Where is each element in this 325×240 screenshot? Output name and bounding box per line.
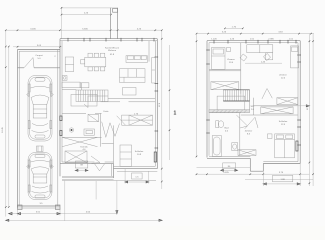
garage inner right wall [57,50,59,207]
storage room bottom wall [18,67,25,69]
window ticks top wall [68,38,154,42]
closet with X [122,115,153,125]
door arc bedroom [91,156,100,163]
dim box A [75,161,87,168]
dim line left inner [8,47,10,208]
dresser X middle room [238,150,256,156]
dining table [85,57,106,67]
dim line top main [6,29,162,31]
bottom dim line 3 [245,179,313,181]
car 1 wheels [28,84,51,129]
extension line left of upper dims [61,7,63,39]
chimney shaft above roof [110,8,112,39]
hob [134,56,140,60]
wall pier dark master [296,141,298,151]
stairs upper flight [76,90,108,102]
sideboard right wall [152,58,156,84]
stairs dark edge [223,89,249,91]
dim box D [273,175,293,181]
tall cabinet left [65,57,73,72]
house left wall [59,39,61,177]
bottom step down [249,158,251,171]
kitchen wall stub [148,41,150,62]
right wall window ticks og [297,55,301,145]
svg-text:Wohnen: Wohnen [108,50,117,52]
kitchen counter [126,56,147,63]
svg-text:Schlafen: Schlafen [279,121,288,123]
desk chair right [263,53,270,60]
car 1 [27,76,54,142]
bedroom top wall segment [102,143,114,145]
hall wall vertical [100,113,102,146]
wall pier dark 1 [60,116,62,121]
coffee table [123,88,137,96]
dim lines right [308,34,310,186]
svg-text:Zimmer: Zimmer [227,58,235,61]
desk chair left [240,54,247,61]
lowboard left [62,82,80,88]
svg-text:3.435: 3.435 [30,28,36,30]
stair wall stub [80,83,82,90]
wardrobe X bedroom1 [211,82,239,90]
dim box C [223,163,236,169]
wc room wall [253,98,255,115]
right dim line of left plan [161,30,163,189]
bedroom wardrobe [120,145,132,166]
dim arrows A [75,169,87,171]
stairs lower outline [71,95,97,107]
garage top wall [18,49,61,51]
living/hall wall a [108,98,155,100]
bottom alcove wall [250,170,263,172]
hall wall upper [62,112,86,114]
bath right wall [239,113,241,156]
door V a [102,122,110,138]
stairs upper flight [223,90,249,101]
svg-text:Kochen/Essen: Kochen/Essen [105,48,120,50]
wall pier dark bedroom [154,152,156,162]
svg-text:Schlafen: Schlafen [135,151,144,153]
dim line top [197,33,315,35]
bottom dim line 1 [197,167,251,169]
stairs walk line [84,96,108,108]
house bottom-left wall [60,163,114,165]
bottom step up [262,164,264,172]
short dim above [225,27,243,29]
door swing right of stairs [262,89,272,99]
dim line upper A [62,7,118,9]
bollard between cars [37,146,44,152]
appliance box [84,129,94,135]
bottom wall right part [263,163,300,165]
house top wall [60,38,157,40]
svg-text:Zimmer: Zimmer [279,74,287,77]
left wall [206,41,208,158]
dim line upper B [62,14,112,16]
svg-text:1: 1 [174,111,177,117]
bottom dim arrows D [263,183,300,185]
storage door leaf [24,58,34,68]
terrace double door V [94,164,104,171]
dim line left [196,34,198,157]
tech door swings X [62,137,98,146]
wall box left [62,76,67,81]
garage left wall [17,50,19,208]
closet door leaf [117,116,126,125]
left wall window ticks og [206,50,210,133]
wardrobe X row2 [261,107,293,114]
bottom dim line garage [9,213,117,215]
stairwell right wall [249,90,251,110]
bedroom1 wall [209,70,241,72]
bath top wall [209,112,241,114]
terrace center extension [95,181,97,200]
door arc kid room [245,117,258,129]
bottom dim arrows [18,213,61,215]
sofa [120,69,146,83]
hatched wall under stairs [209,110,250,113]
svg-text:Diele: Diele [104,111,110,113]
washing machine circle [69,128,73,132]
desk [247,45,273,53]
shower X box [65,151,87,163]
wall pier dark 2 [60,131,62,136]
nightstand master [268,134,273,139]
nightstand [227,48,231,52]
living/hall wall b [101,101,120,103]
door V b [110,123,120,137]
bottom wall left part [207,157,250,159]
chimney box [113,9,118,13]
window ticks top wall [214,40,296,44]
top wall [207,40,300,42]
bottom extension lines [17,208,19,216]
tick upper dims [61,7,112,15]
svg-text:16.45: 16.45 [2,126,4,132]
door arc bath [236,115,247,128]
stairs outline lower [217,96,245,110]
svg-text:2.385: 2.385 [268,39,274,41]
terrace lower edge [62,178,114,180]
bottom dim line outer [6,219,162,221]
car 2 wheels [28,160,51,192]
inner dim [245,62,282,64]
interior wall bedroom [113,125,115,163]
corridor wall 1 [253,105,298,107]
garage bottom corner pads [18,205,23,210]
dim arrows C [221,169,238,171]
terrace upper edge [62,175,114,177]
terrace line right [117,170,157,172]
svg-text:5.635: 5.635 [223,172,229,174]
svg-text:Technik: Technik [80,147,88,149]
corridor wall 2 [241,114,298,116]
bed 1 [212,48,226,70]
garage dim line [13,46,62,48]
garage bottom wall [18,205,61,207]
step wall at bottom [113,164,115,178]
bedroom1/2 divider [240,43,242,94]
sink [232,143,238,151]
svg-text:Carport: Carport [35,54,43,57]
svg-text:5.635: 5.635 [82,28,88,30]
right wall [299,41,301,164]
wardrobe X row1 [277,98,298,105]
dim line left outer [5,30,7,216]
svg-text:WC: WC [251,106,255,108]
counter item [141,56,146,60]
dim box B [132,173,143,179]
bottom dim line 2 [197,173,310,175]
dim ticks top [5,29,163,31]
dim arrows B [125,181,149,183]
toilet [216,121,224,128]
chairs top [88,53,92,57]
boundary line [169,45,171,160]
chair left [81,60,85,64]
bed 2 [291,46,299,68]
house right wall [156,39,158,169]
master bed [275,134,295,158]
house bottom-right wall [114,168,158,170]
svg-text:1.135: 1.135 [211,39,217,41]
chairs bottom [88,67,92,71]
sink [128,56,134,60]
tech room wall [62,136,102,138]
left dim ticks [5,46,10,208]
bathtub [212,136,221,157]
car 2 [27,153,54,200]
svg-text:Zimmer: Zimmer [245,130,253,133]
hall closet box [88,114,99,121]
wall left of stairs [62,89,76,91]
right wall window ticks [155,57,159,148]
